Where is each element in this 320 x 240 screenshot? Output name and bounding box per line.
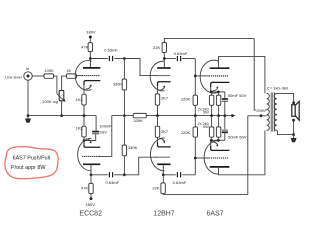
svg-text:330K: 330K <box>133 118 143 123</box>
node V3a grid tap <box>194 75 197 78</box>
wire jack down to ground bus <box>27 80 29 116</box>
wire C3 to V3a grid node <box>182 58 195 60</box>
node speaker top <box>292 101 295 104</box>
transformer T1 secondary winding <box>274 93 277 130</box>
wire node B to V2b grid <box>124 157 156 175</box>
wire V2b anode down <box>162 165 164 175</box>
capacitor C3 0.63mF <box>174 51 188 61</box>
label ECC82 <box>79 211 102 218</box>
node V2a anode <box>163 57 166 60</box>
ground symbol secondary <box>291 135 297 143</box>
wire V1a cathode down <box>83 85 85 94</box>
resistor 2K7 cathode bottom <box>155 116 169 138</box>
svg-text:1K2: 1K2 <box>76 125 84 130</box>
resistor 330K bridge upper <box>113 59 127 116</box>
svg-text:47K: 47K <box>81 45 89 50</box>
svg-text:22K: 22K <box>152 185 160 190</box>
svg-text:1K: 1K <box>66 68 71 73</box>
resistor 100K input <box>44 68 54 78</box>
node V2b anode <box>162 173 165 176</box>
wire V1a anode up <box>89 59 91 68</box>
supply 180V top terminal <box>86 30 96 39</box>
wire 100K to pot wiper <box>54 76 57 94</box>
node jack-ground <box>27 114 30 117</box>
resistor 330K horizontal to ground line <box>133 113 146 123</box>
node V3b grid tap <box>194 157 197 160</box>
wire 47K to 180V bottom <box>90 194 92 198</box>
label 2x 2K0 5W bottom <box>198 122 210 129</box>
wire V3b anode to transformer <box>219 131 265 175</box>
ground bus left <box>28 115 96 117</box>
triode V2b 12BH7 bottom <box>150 138 170 171</box>
node B coupling junction <box>123 173 126 176</box>
svg-text:330K: 330K <box>113 82 122 87</box>
resistor 1K2 cathode top <box>76 94 87 105</box>
label Line level <box>5 75 22 80</box>
wire speaker bottom to secondary <box>293 120 295 134</box>
cathode segment top <box>211 91 225 93</box>
red annotation ellipse <box>5 147 58 179</box>
capacitor 50mF 50V bottom <box>222 116 247 141</box>
wire pot top to R 1K <box>62 76 67 91</box>
node 2K0 line a <box>210 114 213 117</box>
resistor 1K grid stopper <box>66 68 76 78</box>
svg-text:Z = 1k0–3k0: Z = 1k0–3k0 <box>267 86 289 91</box>
wire to V1b grid <box>99 116 112 157</box>
svg-text:0.63mF: 0.63mF <box>173 180 187 185</box>
supply 295V feed <box>254 38 266 110</box>
capacitor 100mF 16V bypass <box>84 116 112 141</box>
svg-text:220K: 220K <box>181 130 191 135</box>
supply rail bottom <box>163 116 248 195</box>
svg-text:100K: 100K <box>44 68 54 73</box>
wire anode node to C1 <box>90 58 107 60</box>
line P to arrow <box>112 115 232 117</box>
svg-text:1K2: 1K2 <box>76 97 84 102</box>
resistor 2K0 5W bottom first <box>209 116 213 141</box>
label 12BH7 <box>153 211 175 218</box>
node V1a anode <box>89 57 92 60</box>
wire V2a cathode down <box>157 86 159 94</box>
resistor 22K anode load bottom <box>152 175 165 194</box>
wire V3a cathode down <box>210 87 212 92</box>
node 220K-line <box>194 114 197 117</box>
wire 1K2 to ground bus <box>83 105 85 116</box>
svg-text:5W: 5W <box>203 125 209 129</box>
triode V1a ECC82 top <box>75 61 100 91</box>
resistor 47K anode load bottom <box>81 175 93 194</box>
svg-text:220K: 220K <box>181 97 191 102</box>
resistor 1K2 cathode bottom <box>76 116 87 141</box>
ground symbol <box>25 116 31 123</box>
svg-text:Line level: Line level <box>5 75 22 80</box>
wire C1 to node A <box>114 58 124 60</box>
triode V2a 12BH7 top <box>150 61 170 91</box>
capacitor C1 0.63mF <box>104 48 118 62</box>
capacitor 50mF 50V top <box>222 92 247 116</box>
supply rail top from 22K <box>164 38 254 42</box>
svg-text:P/out appr 8W: P/out appr 8W <box>11 165 46 171</box>
center tap line bottom <box>248 115 267 117</box>
svg-text:5W: 5W <box>203 111 209 115</box>
svg-text:12BH7: 12BH7 <box>153 211 175 218</box>
wire V1b anode to C2 <box>91 174 108 176</box>
cathode segment bottom <box>211 139 225 141</box>
svg-text:0.63mF: 0.63mF <box>104 48 118 53</box>
wire C2 to node B <box>114 174 124 176</box>
svg-text:2K7: 2K7 <box>161 96 169 101</box>
svg-text:22K: 22K <box>153 45 161 50</box>
capacitor C4 0.63mF <box>173 172 187 185</box>
wire secondary bottom <box>278 131 294 135</box>
triode V1b ECC82 bottom <box>78 138 101 171</box>
node 2K0 line b <box>217 114 220 117</box>
svg-text:47K: 47K <box>81 185 89 190</box>
svg-text:0.63mF: 0.63mF <box>105 180 119 185</box>
node secondary bottom <box>292 133 295 136</box>
wire 180V to 47K <box>89 38 91 42</box>
node 50mF line <box>223 114 226 117</box>
resistor 2K0 5W bottom second <box>216 116 220 141</box>
resistor 47K anode load top <box>81 43 92 52</box>
resistor 2K0 5W top second <box>216 92 220 116</box>
svg-text:295V: 295V <box>256 108 266 113</box>
triode V3a 6AS7 top <box>200 60 229 93</box>
resistor 2K0 5W top first <box>209 92 213 116</box>
label 2x 2K0 5W top <box>198 107 210 114</box>
resistor 330K bridge lower <box>122 116 137 175</box>
wire 2K7 to V2b cathode <box>157 137 159 142</box>
node cath seg c <box>210 139 213 142</box>
svg-text:330K: 330K <box>128 145 138 150</box>
wire to V3a grid <box>195 75 209 77</box>
node cath seg a <box>210 91 213 94</box>
wire V1b cathode up <box>83 141 85 146</box>
svg-text:2K7: 2K7 <box>161 129 169 134</box>
wire pot bottom to ground bus <box>61 101 63 116</box>
svg-text:0.63mF: 0.63mF <box>174 51 188 56</box>
svg-text:180V: 180V <box>86 30 96 35</box>
label 295V <box>256 108 266 114</box>
node cath seg d <box>217 139 220 142</box>
wire 22K to V2a anode <box>163 53 165 59</box>
supply 180V bottom terminal <box>85 197 95 207</box>
node 2K7-line <box>156 114 159 117</box>
node A coupling junction <box>123 57 126 60</box>
resistor 2K7 cathode top <box>155 94 169 105</box>
wire down to 220K top <box>194 59 196 96</box>
capacitor C2 0.63mF <box>105 172 119 185</box>
node V1b cathode <box>83 139 86 142</box>
resistor 220K grid top <box>181 95 198 105</box>
label 6AS7 <box>206 211 223 218</box>
transformer T1 primary winding <box>267 93 270 130</box>
node V1b anode <box>90 173 93 176</box>
resistor 22K anode load top <box>153 43 167 53</box>
wire V2a anode up <box>163 59 165 68</box>
input jack J1 <box>24 72 32 80</box>
wire C4 to V3b grid node <box>182 137 195 175</box>
wire V2a anode to C3 <box>164 58 176 60</box>
node 1K2-ground <box>83 114 86 117</box>
wire to V3b grid <box>195 157 209 159</box>
wire V3b cathode up <box>210 140 212 146</box>
triode V3b 6AS7 bottom <box>204 141 229 175</box>
wire 220K to ground line <box>194 105 196 115</box>
svg-text:In: In <box>26 66 29 71</box>
svg-text:6AS7 Push/Pull: 6AS7 Push/Pull <box>13 156 50 162</box>
node P paraphase junction <box>123 114 126 117</box>
node speaker bottom <box>292 119 295 122</box>
wire 1K to V1a grid <box>77 75 83 77</box>
wire V3a anode to transformer <box>219 56 265 93</box>
wire V1b anode down <box>90 165 92 175</box>
resistor 220K grid bottom <box>181 116 198 138</box>
transformer core <box>271 92 274 131</box>
svg-text:100mF: 100mF <box>99 123 112 128</box>
svg-text:6AS7: 6AS7 <box>206 211 223 218</box>
pot wiper arrow <box>57 94 66 102</box>
node center tap <box>260 114 263 117</box>
svg-text:ECC82: ECC82 <box>79 211 102 218</box>
svg-text:180V: 180V <box>85 202 95 207</box>
ground arrow right end <box>231 114 235 118</box>
red annotation text <box>11 156 50 172</box>
node cath seg b <box>217 91 220 94</box>
label In <box>26 66 29 71</box>
wire 2K7 to ground line <box>157 105 159 115</box>
wire jack to R 100K <box>32 75 44 77</box>
wire secondary top to speaker <box>277 93 294 102</box>
svg-text:100K log: 100K log <box>42 99 58 104</box>
svg-text:50mF 50V: 50mF 50V <box>228 93 247 98</box>
svg-text:50mF 50V: 50mF 50V <box>228 135 247 140</box>
svg-text:16V: 16V <box>100 130 108 135</box>
label Z = 1K0-3K0 <box>267 86 289 91</box>
wire node A to V2a grid <box>124 59 156 76</box>
speaker LS1 <box>292 101 299 120</box>
potentiometer 100K log <box>42 91 64 104</box>
wire 47K to V1a anode node <box>89 52 91 59</box>
wire V2b anode to C4 <box>163 174 176 176</box>
node pot-ground <box>60 114 63 117</box>
